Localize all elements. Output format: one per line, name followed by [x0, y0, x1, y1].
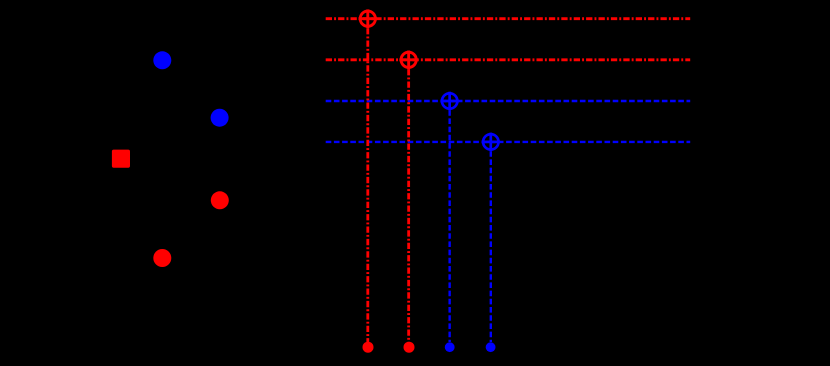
node: measurement outcome m2 (red dot) [404, 342, 415, 353]
wire: qubit line q2 (red dash-dot horizontal) [326, 58, 691, 61]
graph node 5 (red qubit, bottom) [153, 249, 171, 267]
wire: qubit line q1 (red dash-dot horizontal) [326, 17, 691, 20]
wire: vertical control line from X1 to outcome m1 (red dash-dot) [366, 28, 369, 342]
graph node 3 (red square input qubit) [112, 150, 130, 168]
graph node 1 (blue qubit, top-left) [153, 51, 171, 69]
node: measurement outcome m4 (blue dot) [486, 342, 496, 352]
node: measurement outcome m3 (blue dot) [445, 342, 455, 352]
XOR target X1 on q1 (red circle-plus) [359, 9, 378, 28]
wire: vertical control line from X2 to outcome m2 (red dash-dot) [407, 69, 410, 342]
wire: vertical control line from X4 to outcome m4 (blue dashed) [490, 151, 492, 342]
graph node 4 (red qubit) [211, 191, 229, 209]
XOR target X4 on q4 (blue circle-plus) [482, 133, 501, 152]
wire: qubit line q4 (blue dashed horizontal) [326, 141, 691, 143]
wire: qubit line q3 (blue dashed horizontal) [326, 100, 691, 102]
XOR target X3 on q3 (blue circle-plus) [440, 92, 459, 111]
node: measurement outcome m1 (red dot) [363, 342, 374, 353]
wire: vertical control line from X3 to outcome m3 (blue dashed) [448, 110, 450, 342]
graph node 2 (blue qubit) [211, 109, 229, 127]
XOR target X2 on q2 (red circle-plus) [399, 51, 418, 70]
